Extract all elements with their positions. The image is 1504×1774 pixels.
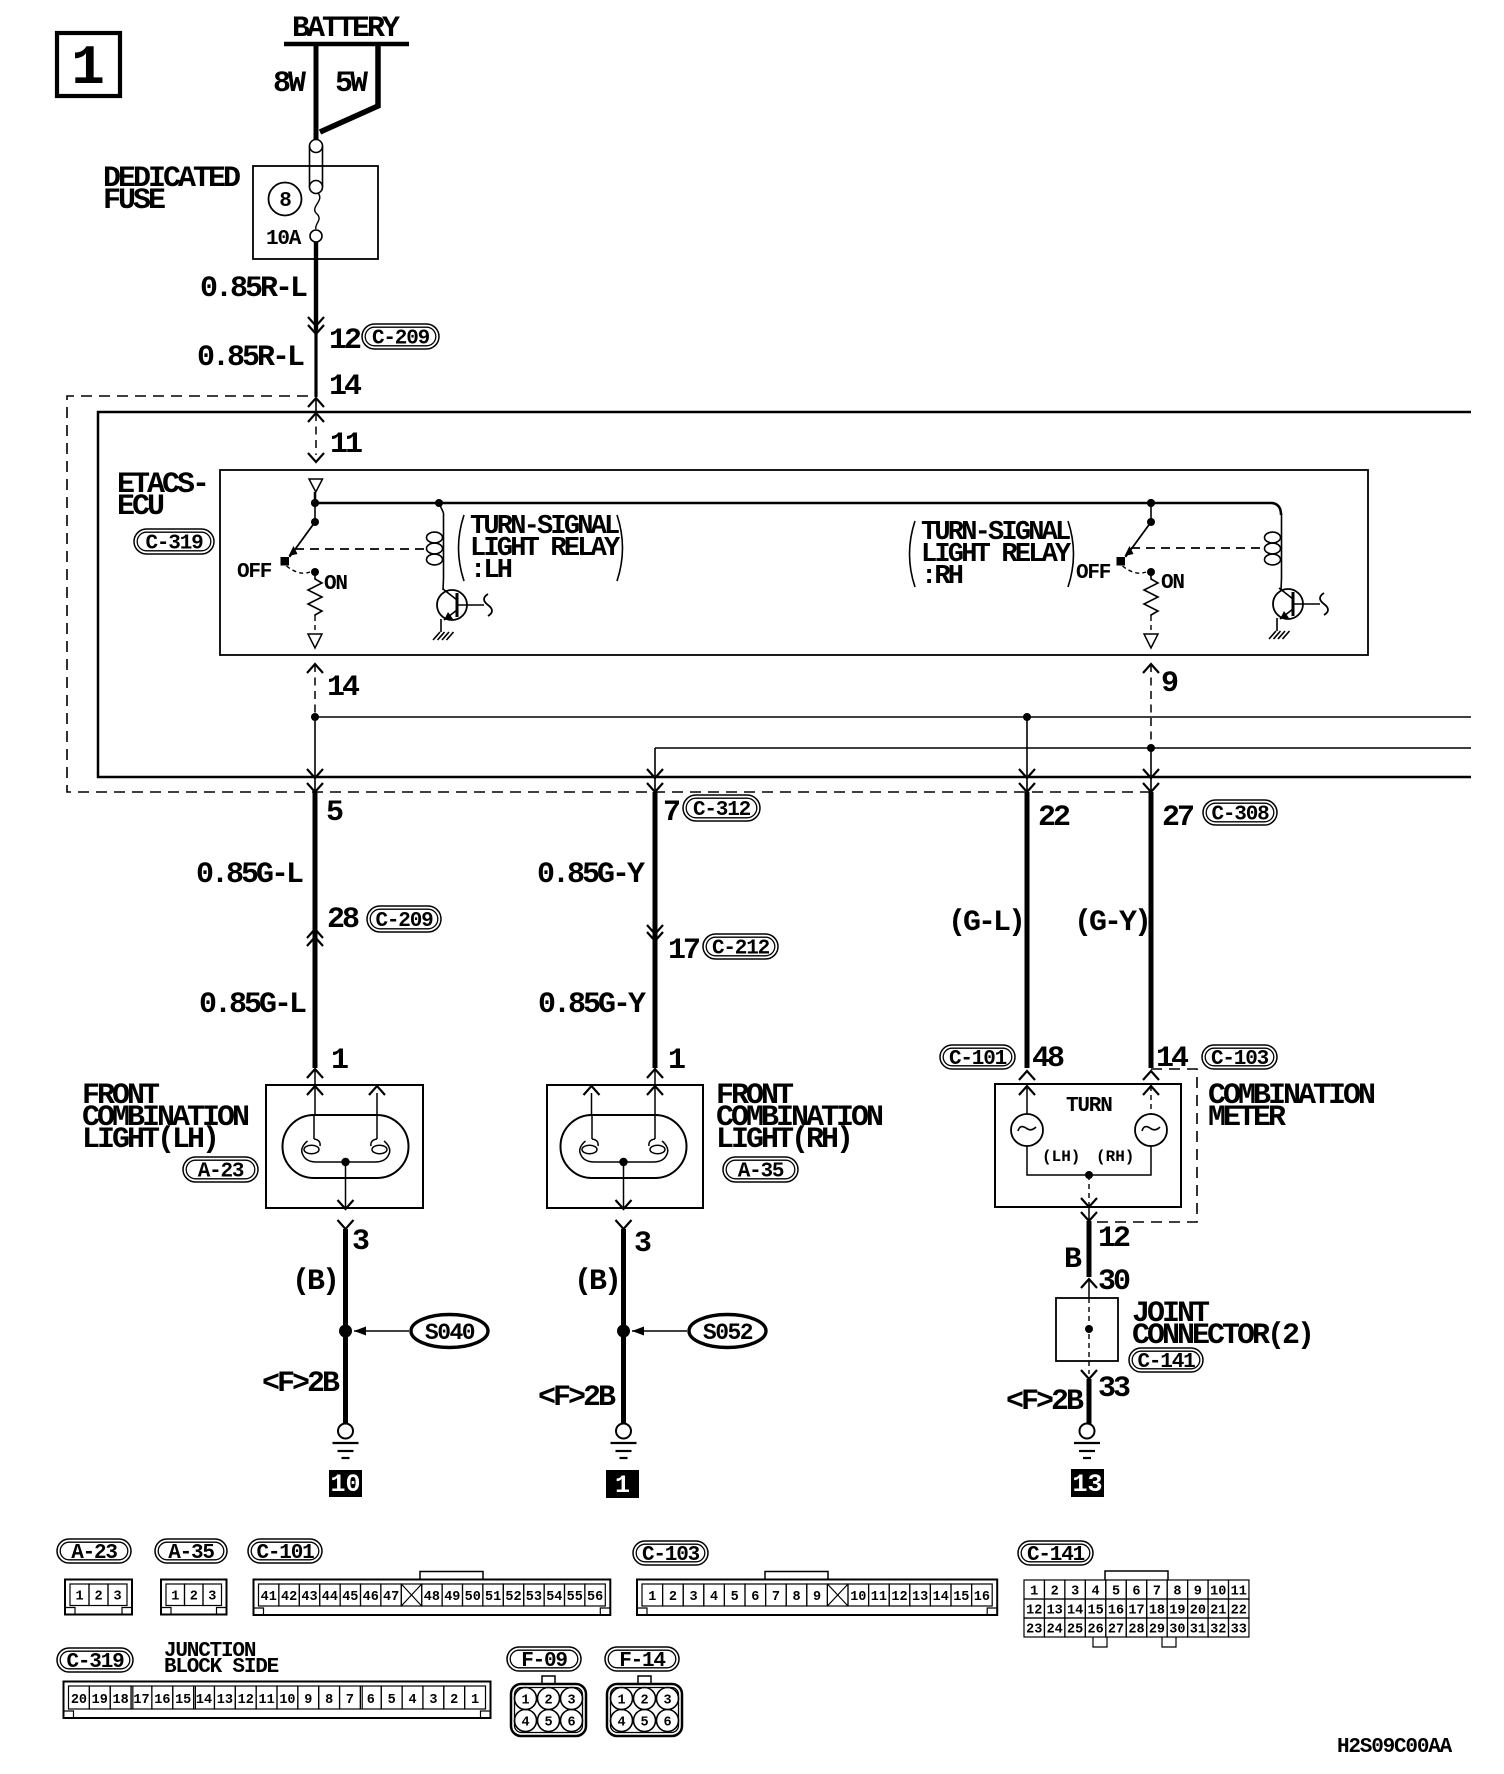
in-line connector C-212 pin 17 chevrons [647,925,663,934]
svg-text:4: 4 [521,1716,529,1731]
wire into light box RH [654,1069,656,1115]
svg-text:3: 3 [567,1694,575,1709]
svg-text:30: 30 [1169,1623,1185,1638]
svg-text:14: 14 [1156,1042,1189,1076]
ECU internal ground RH [1269,631,1290,639]
junction node supply/LH-coil [435,499,443,507]
svg-text:C-103: C-103 [642,1544,700,1567]
dedicated fuse box [253,166,378,259]
svg-text:2: 2 [669,1590,677,1605]
transistor (flasher driver) RH [1273,588,1328,619]
svg-text:13: 13 [217,1693,233,1708]
svg-text:25: 25 [1067,1623,1083,1638]
body ground (combination meter) [1074,1424,1100,1459]
turn indicator lamp RH [1135,1114,1167,1146]
wire (G-L) to combination meter [1025,792,1030,1068]
connector F-09 pinout [511,1676,586,1736]
fuse element squiggle [315,193,320,229]
wire meter pin 14 to RH lamp (dashed) [1150,1086,1152,1114]
svg-text:50: 50 [465,1590,481,1605]
wire <F>2B to ground [1087,1379,1092,1424]
svg-text:51: 51 [485,1590,501,1605]
svg-text:5: 5 [388,1693,396,1708]
svg-text:C-319: C-319 [66,1651,124,1674]
svg-text:23: 23 [1026,1623,1042,1638]
svg-text:ON: ON [1161,572,1184,595]
svg-text:5: 5 [731,1590,739,1605]
svg-text:C-101: C-101 [256,1542,314,1565]
svg-text:18: 18 [113,1693,129,1708]
second filament wire LH (arrow only) [376,1093,378,1115]
svg-text:14: 14 [327,671,360,705]
svg-text:METER: METER [1208,1101,1286,1135]
svg-text:22: 22 [1231,1604,1247,1619]
wire (B) light RH to ground [621,1229,626,1424]
svg-text:3: 3 [1071,1585,1079,1600]
input terminal triangle [309,479,323,492]
svg-text:12: 12 [1026,1604,1042,1619]
turn-signal light relay coil LH [427,513,444,578]
svg-text:OFF: OFF [1076,562,1111,585]
svg-text:<F>2B: <F>2B [538,1381,616,1415]
connector label C-141 [1018,1541,1093,1567]
svg-text:41: 41 [261,1590,277,1605]
svg-text:BLOCK SIDE: BLOCK SIDE [164,1656,279,1679]
svg-text:42: 42 [281,1590,297,1605]
svg-text:44: 44 [322,1590,338,1605]
transistor (flasher driver) LH [437,589,492,620]
svg-text:A-35: A-35 [738,1161,784,1184]
fusible link holder [310,140,323,194]
wire 5W branch [320,44,378,132]
turn-signal flasher switch LH [281,499,323,648]
connector A-35 pinout [161,1580,227,1615]
wire fuse output 0.85R-L [314,242,318,330]
svg-text:13: 13 [1072,1470,1102,1499]
wire battery feed (8W) [314,44,319,140]
svg-text:19: 19 [92,1693,108,1708]
svg-text:C-103: C-103 [1211,1048,1269,1071]
svg-text:32: 32 [1210,1623,1226,1638]
connector C-141 pinout [1024,1571,1249,1647]
svg-text:5: 5 [544,1716,552,1731]
svg-text:0.85G-Y: 0.85G-Y [538,988,646,1022]
wire coil to transistor LH [442,578,445,590]
svg-text::RH: :RH [921,562,963,592]
junction node lamp returns [1085,1171,1093,1179]
svg-text:46: 46 [363,1590,379,1605]
wire B meter to joint connector [1087,1221,1092,1277]
svg-text:TURN: TURN [1066,1095,1112,1118]
connector label C-103 [1202,1045,1277,1071]
wire transistor emitter to ground RH [1276,618,1278,631]
splice S052 [617,1315,766,1348]
ETACS assembly dashed boundary [67,396,1151,792]
svg-text:4: 4 [617,1716,625,1731]
svg-text:LIGHT(LH): LIGHT(LH) [82,1123,217,1157]
svg-text:1: 1 [75,1590,83,1605]
svg-text:15: 15 [953,1590,969,1605]
svg-text:5: 5 [1112,1585,1120,1600]
svg-text:9: 9 [304,1693,312,1708]
svg-text:7: 7 [1153,1585,1161,1600]
svg-text:ON: ON [324,573,347,596]
svg-text:6: 6 [751,1590,759,1605]
svg-text:8: 8 [325,1693,333,1708]
svg-text:3: 3 [352,1225,369,1259]
connector label A-35 [155,1539,227,1565]
wire pin 11 into ECU (dashed) [315,413,317,455]
dashed actuation link LH switch-coil [295,548,427,550]
connector C-101 pinout [254,1572,611,1616]
svg-text:10: 10 [279,1693,295,1708]
wire 0.85R-L to junction block [314,330,317,397]
svg-text:0.85G-L: 0.85G-L [199,988,306,1022]
svg-text:13: 13 [912,1590,928,1605]
svg-text:17: 17 [133,1693,149,1708]
svg-text:F-14: F-14 [619,1650,665,1673]
svg-text:2: 2 [190,1590,198,1605]
svg-text:F-09: F-09 [521,1650,567,1673]
svg-text:10: 10 [330,1470,360,1499]
svg-text:45: 45 [342,1590,358,1605]
svg-text:0.85G-Y: 0.85G-Y [537,858,645,892]
dashed actuation link RH switch-coil [1131,547,1264,549]
svg-text:12: 12 [329,324,361,358]
wire coil to transistor RH [1280,578,1283,590]
junction node supply/RH-switch [1147,499,1155,507]
connector label C-103 [633,1541,708,1567]
turn indicator lamp LH [1011,1114,1043,1146]
svg-text:15: 15 [1087,1604,1103,1619]
svg-text:0.85G-L: 0.85G-L [196,858,303,892]
connector C-319 pinout (junction block side) [64,1682,491,1719]
svg-text:1: 1 [331,1044,348,1078]
junction node line B / wire 9 [1147,744,1155,752]
svg-text:ECU: ECU [117,490,164,524]
wire ECU exit x=1151 [1150,748,1152,792]
connector label C-312 [683,795,760,822]
svg-text:H2S09C00AA: H2S09C00AA [1337,1736,1453,1759]
svg-text:6: 6 [1132,1585,1140,1600]
connector label C-319 [134,529,214,556]
diagram tag 13 (black box) [1071,1469,1104,1499]
svg-text:C-209: C-209 [375,910,433,933]
combination meter dashed boundary [1089,1069,1197,1222]
body ground (front light LH) [333,1424,359,1459]
connector label C-101 [940,1045,1015,1071]
chevron at dashed boundary crossing [308,398,324,407]
svg-text:43: 43 [301,1590,317,1605]
svg-text:53: 53 [526,1590,542,1605]
connector label A-35 [723,1157,798,1184]
junction node LH output [311,713,319,721]
battery positive bus bar [284,42,409,47]
svg-text:(B): (B) [292,1265,337,1299]
relay label RH [910,518,1074,592]
svg-text:22: 22 [1038,801,1070,835]
svg-text:17: 17 [1128,1604,1144,1619]
second filament wire RH (arrow only) [591,1093,593,1115]
svg-text:17: 17 [668,934,699,968]
ETACS-ECU solid box [98,412,1471,777]
svg-text:24: 24 [1047,1623,1063,1638]
svg-text:28: 28 [327,903,359,937]
svg-text:49: 49 [444,1590,460,1605]
ECU internal ground LH [433,632,454,640]
page number box 1 [57,33,120,100]
svg-text:9: 9 [813,1590,821,1605]
connector A-23 pinout [65,1580,132,1615]
svg-text:0.85R-L: 0.85R-L [197,341,304,375]
svg-text:11: 11 [871,1590,887,1605]
connector F-14 pinout [607,1676,682,1736]
svg-text:1: 1 [668,1044,685,1078]
chevron at ECU box top crossing [308,413,324,422]
svg-text:29: 29 [1149,1623,1165,1638]
diagram tag 10 (black box) [329,1470,362,1499]
svg-text:LIGHT(RH): LIGHT(RH) [716,1123,851,1157]
front combination light LH box [266,1085,423,1208]
svg-text:C-209: C-209 [372,328,430,351]
svg-text:9: 9 [1194,1585,1202,1600]
svg-text:3: 3 [208,1590,216,1605]
svg-text:(G-Y): (G-Y) [1074,906,1149,940]
svg-text:1: 1 [617,1694,625,1709]
svg-text:(B): (B) [574,1265,619,1299]
svg-text:C-212: C-212 [712,938,770,961]
wire meter pin 48 to LH lamp [1026,1086,1028,1114]
svg-text:14: 14 [1067,1604,1083,1619]
svg-text:1: 1 [171,1590,179,1605]
svg-text:48: 48 [1032,1042,1064,1076]
connector label C-319 [57,1648,133,1674]
svg-text:<F>2B: <F>2B [1006,1385,1084,1419]
svg-text:S052: S052 [703,1320,753,1346]
svg-text:10A: 10A [266,228,302,251]
svg-text:(LH): (LH) [1042,1148,1080,1166]
svg-text:1: 1 [471,1693,479,1708]
bulb (front combination light LH) [283,1115,409,1208]
svg-text:16: 16 [974,1590,990,1605]
svg-text:12: 12 [1098,1222,1130,1256]
svg-text:52: 52 [505,1590,521,1605]
bus line B to combination meter RH [655,747,1471,749]
bulb (front combination light RH) [561,1115,687,1208]
svg-text:16: 16 [1108,1604,1124,1619]
svg-text:11: 11 [330,428,362,462]
svg-text:A-23: A-23 [198,1161,244,1184]
junction node line A / wire 22 [1023,713,1031,721]
svg-text:C-141: C-141 [1137,1351,1195,1374]
wire transistor emitter to ground LH [440,619,442,632]
svg-text:8: 8 [792,1590,800,1605]
svg-text:20: 20 [1190,1604,1206,1619]
svg-text:1: 1 [521,1694,529,1709]
svg-text:C-308: C-308 [1211,804,1269,827]
svg-text:7: 7 [346,1693,354,1708]
fuse terminal circle [310,230,322,242]
svg-text:48: 48 [424,1590,440,1605]
svg-text:OFF: OFF [237,561,272,584]
relay label LH [459,512,623,586]
svg-text:5: 5 [640,1716,648,1731]
svg-text:6: 6 [567,1716,575,1731]
svg-text:2: 2 [1051,1585,1059,1600]
svg-text:4: 4 [1092,1585,1100,1600]
internal supply line [315,492,1281,515]
svg-text:56: 56 [587,1590,603,1605]
svg-text:18: 18 [1149,1604,1165,1619]
svg-text:26: 26 [1087,1623,1103,1638]
svg-text:27: 27 [1108,1623,1124,1638]
svg-text:14: 14 [196,1693,212,1708]
wire through boundary into ECU [315,398,317,413]
body ground (front light RH) [611,1424,637,1459]
svg-text:31: 31 [1190,1623,1206,1638]
svg-text:1: 1 [615,1471,630,1500]
connector label C-212 [703,934,778,961]
svg-text:11: 11 [258,1693,274,1708]
connector label A-23 [183,1157,258,1184]
svg-text:4: 4 [710,1590,718,1605]
svg-text:27: 27 [1162,801,1193,835]
svg-text:2: 2 [544,1694,552,1709]
wire ECU pin 9 (RH output, internal dashed) [1143,664,1159,673]
wire (B) light LH to ground [343,1229,348,1424]
diagram tag 1 (black box) [606,1470,639,1500]
svg-text:30: 30 [1098,1265,1130,1299]
svg-text:3: 3 [663,1694,671,1709]
svg-text:12: 12 [238,1693,254,1708]
in-line connector chevrons C-209 pin 12 [308,317,324,326]
connector label C-209 [362,324,439,351]
wire meter pin 12 (dashed) [1088,1175,1090,1206]
svg-text:55: 55 [567,1590,583,1605]
wire 0.85G-L (ECU to front light LH) [313,792,318,1068]
svg-text:8: 8 [1173,1585,1181,1600]
in-line connector C-209 pin 28 chevrons [307,929,323,938]
svg-text:(RH): (RH) [1096,1148,1134,1166]
bus line A to combination meter LH [315,716,1471,718]
svg-text:33: 33 [1098,1372,1130,1406]
svg-text:10: 10 [1210,1585,1226,1600]
svg-text:8: 8 [279,190,291,213]
svg-text:1: 1 [1030,1585,1038,1600]
svg-text:3: 3 [429,1693,437,1708]
joint connector (2) box [1056,1279,1118,1374]
svg-text:5W: 5W [335,67,368,101]
wire (G-Y) to combination meter [1149,792,1154,1068]
lamp return wires [1027,1146,1151,1175]
svg-text:C-141: C-141 [1027,1544,1085,1567]
svg-text:14: 14 [933,1590,949,1605]
connector label C-141 [1129,1348,1203,1374]
svg-text:A-35: A-35 [168,1542,214,1565]
svg-text:5: 5 [326,796,343,830]
connector label F-14 [605,1647,679,1673]
svg-text:C-101: C-101 [949,1048,1007,1071]
ECU internal relay circuit box [220,470,1368,655]
svg-text:21: 21 [1210,1604,1226,1619]
svg-text:2: 2 [640,1694,648,1709]
svg-text:7: 7 [663,796,679,830]
svg-text:14: 14 [329,370,362,404]
svg-text:FUSE: FUSE [103,184,165,218]
svg-text:A-23: A-23 [71,1542,117,1565]
svg-text:1: 1 [648,1590,656,1605]
svg-text:19: 19 [1169,1604,1185,1619]
connector label C-101 [248,1539,322,1565]
svg-text:28: 28 [1128,1623,1144,1638]
front combination light RH box [547,1085,703,1208]
svg-text:3: 3 [113,1590,121,1605]
svg-text:3: 3 [634,1227,651,1261]
svg-text:C-319: C-319 [145,533,203,556]
svg-text:33: 33 [1231,1623,1247,1638]
splice S040 [339,1315,488,1348]
svg-text:6: 6 [367,1693,375,1708]
turn-signal flasher switch RH [1117,499,1159,648]
svg-text:10: 10 [850,1590,866,1605]
svg-text:8W: 8W [273,67,306,101]
svg-text:6: 6 [663,1716,671,1731]
svg-text:16: 16 [154,1693,170,1708]
svg-text:4: 4 [408,1693,416,1708]
svg-text:13: 13 [1047,1604,1063,1619]
connector label F-09 [507,1647,581,1673]
svg-text:20: 20 [71,1693,87,1708]
svg-text:C-312: C-312 [693,799,751,822]
connector label C-308 [1203,800,1277,827]
wire ECU pin 14 (LH output, internal dashed) [307,664,323,673]
wire ECU exit x=1027 [1026,717,1028,792]
wire 0.85G-Y (ECU to front light RH) [653,792,658,1068]
svg-text:47: 47 [383,1590,399,1605]
svg-text:1: 1 [71,36,105,100]
svg-text:<F>2B: <F>2B [262,1367,340,1401]
turn-signal light relay coil RH [1265,513,1282,578]
svg-text:15: 15 [175,1693,191,1708]
svg-text:BATTERY: BATTERY [292,12,400,46]
svg-text:3: 3 [689,1590,697,1605]
combination meter box [995,1084,1181,1207]
connector C-103 pinout [637,1572,997,1616]
svg-text:(G-L): (G-L) [948,906,1023,940]
svg-text:2: 2 [94,1590,102,1605]
svg-text:0.85R-L: 0.85R-L [200,272,307,306]
connector label A-23 [57,1539,131,1565]
fuse number circle 8 [269,183,302,216]
svg-text:54: 54 [546,1590,562,1605]
svg-text:2: 2 [450,1693,458,1708]
svg-text:12: 12 [891,1590,907,1605]
junction node supply/LH-switch [311,499,319,507]
LH coil feed [439,503,444,513]
svg-text:7: 7 [772,1590,780,1605]
wire ECU exit x=655 [654,748,656,792]
svg-text:11: 11 [1231,1585,1247,1600]
svg-text:S040: S040 [425,1320,475,1346]
wire into light box LH [314,1069,316,1115]
connector label C-209 [367,906,441,933]
svg-text::LH: :LH [470,556,512,586]
svg-text:9: 9 [1161,667,1178,701]
wire ECU exit x=315 [314,721,316,792]
